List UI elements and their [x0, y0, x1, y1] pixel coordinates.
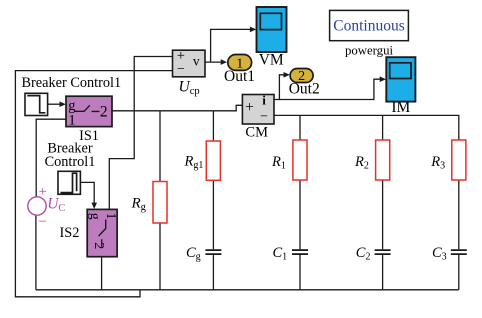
arrowhead into IS2 g — [91, 203, 97, 209]
source UC — [28, 184, 66, 230]
wire C3 bottom to bus — [458, 255, 460, 290]
svg-text:Breaker Control1: Breaker Control1 — [22, 75, 122, 91]
svg-text:Continuous: Continuous — [333, 18, 404, 35]
wire R2 bottom to C2 — [382, 180, 384, 249]
breaker IS1 — [66, 96, 112, 128]
svg-text:2: 2 — [91, 242, 106, 249]
svg-text:Out1: Out1 — [224, 68, 255, 85]
capacitor C1 — [292, 250, 308, 254]
svg-text:VM: VM — [259, 52, 284, 69]
wire R2 column top — [382, 115, 384, 140]
wire Ucp output to Out1 — [205, 61, 222, 63]
svg-text:g: g — [88, 213, 103, 220]
wire UC minus to bottom bus — [35, 215, 37, 290]
svg-text:IM: IM — [391, 99, 410, 116]
resistor R2 — [376, 140, 390, 180]
wire branch up to VM — [211, 29, 251, 62]
svg-text:1: 1 — [104, 213, 119, 220]
wire IS1 port1 to UC plus — [36, 119, 66, 197]
svg-text:i: i — [262, 92, 266, 107]
svg-text:−: − — [38, 214, 46, 230]
svg-text:powergui: powergui — [345, 44, 394, 58]
wire bottom bus — [36, 289, 459, 291]
capacitor Cg — [205, 250, 221, 254]
arrowhead into IM — [380, 76, 386, 82]
wire Rg1 column top — [212, 111, 214, 141]
resistor Rg — [153, 182, 167, 224]
wire junction up to Out2 — [279, 75, 284, 100]
scope IM — [386, 57, 415, 101]
scope VM — [257, 7, 287, 52]
svg-text:−: − — [177, 62, 185, 77]
svg-text:−: − — [260, 110, 268, 125]
current measurement CM — [242, 92, 274, 124]
wire Ucp minus return loop — [15, 71, 172, 297]
wire step2 to IS2 g — [80, 182, 94, 203]
wire Rg bottom to bus — [159, 223, 161, 290]
arrowhead into Out2 — [284, 72, 290, 78]
svg-text:Out2: Out2 — [289, 81, 320, 98]
wire IS1 output bus to CM plus — [112, 105, 242, 111]
capacitor C2 — [375, 250, 391, 254]
arrowhead into VM — [250, 27, 256, 33]
wire Cg bottom to bus — [212, 255, 214, 290]
wire R1 column top — [299, 115, 301, 140]
voltage measurement Ucp — [173, 48, 206, 77]
wire R1 bottom to C1 — [299, 180, 301, 249]
outport Out2 — [290, 69, 313, 85]
wire IS2 port2 to bottom bus — [101, 257, 103, 290]
wire R3 bottom to C3 — [458, 180, 460, 249]
svg-text:+: + — [245, 99, 254, 116]
svg-text:v: v — [193, 54, 200, 69]
step block 2 — [58, 171, 80, 194]
svg-text:2: 2 — [100, 104, 108, 121]
wire CM i output to IM — [274, 79, 381, 99]
breaker IS2 (rotated) — [87, 209, 119, 256]
step block 1 — [25, 93, 48, 115]
wire C2 bottom to bus — [382, 255, 384, 290]
wire Ucp plus to IS1 output to IS2 port1 — [109, 57, 172, 210]
resistor R1 — [293, 140, 307, 180]
wire Rg column top — [159, 111, 161, 182]
wire C1 bottom to bus — [299, 255, 301, 290]
svg-text:IS2: IS2 — [60, 225, 80, 241]
capacitor C3 — [451, 250, 467, 254]
svg-text:+: + — [39, 184, 47, 200]
svg-text:1: 1 — [68, 112, 75, 128]
svg-text:Control1: Control1 — [45, 154, 96, 170]
resistor R3 — [452, 140, 466, 180]
svg-text:CM: CM — [245, 124, 268, 140]
powergui block Continuous — [330, 10, 409, 40]
arrowhead into Out1 — [221, 59, 227, 65]
resistor Rg1 — [206, 141, 220, 180]
wire CM minus bus to R3 — [274, 115, 459, 140]
arrowhead into IS1 g — [60, 101, 66, 107]
wire Rg1 bottom to Cg — [212, 180, 214, 249]
outport Out1 — [228, 55, 252, 72]
wire step1 to IS1 — [48, 103, 61, 105]
